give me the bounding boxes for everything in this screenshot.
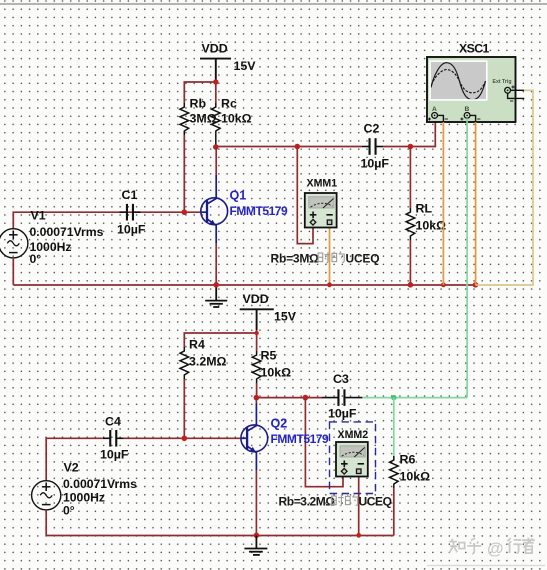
- capacitor C2: [362, 138, 383, 155]
- svg-text:FMMT5179: FMMT5179: [230, 204, 289, 218]
- svg-text:10kΩ: 10kΩ: [221, 112, 252, 126]
- wire XMM2 - to rail 2: [358, 476, 360, 536]
- svg-text:10kΩ: 10kΩ: [261, 366, 292, 380]
- svg-text:R4: R4: [189, 338, 205, 352]
- wire RL bottom to rail: [409, 240, 411, 285]
- svg-text:C4: C4: [105, 415, 121, 429]
- resistor Rc: [212, 103, 221, 135]
- resistor Rb: [180, 103, 189, 135]
- wire R4 bottom to base wire 2: [183, 379, 185, 438]
- power VDD (lower supply): [240, 309, 274, 330]
- resistor R5: [252, 351, 261, 383]
- wire green node down to R6 (green): [393, 398, 395, 456]
- wire collector junction to C2 row: [216, 146, 362, 148]
- ground (circuit 2): [244, 536, 267, 555]
- svg-text:FMMT5179: FMMT5179: [271, 432, 330, 446]
- svg-text:15V: 15V: [274, 310, 297, 324]
- svg-text:VDD: VDD: [202, 42, 228, 56]
- watermark baseline: [427, 565, 545, 567]
- svg-text:C3: C3: [333, 372, 349, 386]
- source V1: [0, 229, 28, 258]
- svg-text:B: B: [465, 106, 470, 113]
- wire Rc bottom to collector junction: [215, 135, 217, 147]
- transistor Q1: [201, 175, 228, 243]
- node collector junction 2: [254, 395, 260, 401]
- node Rb-base junction: [182, 209, 188, 215]
- svg-text:10µF: 10µF: [361, 156, 390, 170]
- wire V2 top to base wire 2: [46, 438, 103, 481]
- watermark 知乎 @行者: [450, 539, 536, 555]
- svg-text:XMM1: XMM1: [307, 178, 338, 190]
- top border line: [0, 3, 547, 5]
- wire VDD1 to Rb top: [184, 82, 216, 103]
- node rail emitter junction: [213, 282, 219, 288]
- node RL top junction: [408, 144, 414, 150]
- svg-text:V1: V1: [31, 209, 46, 223]
- source V2: [32, 481, 61, 510]
- svg-text:10kΩ: 10kΩ: [416, 219, 447, 233]
- svg-text:V2: V2: [64, 461, 79, 475]
- wire Rb bottom to base wire: [183, 135, 185, 212]
- svg-text:Rb=3.2MΩ: Rb=3.2MΩ: [279, 495, 336, 509]
- svg-text:Rb: Rb: [190, 97, 207, 111]
- node rail scope-A junction: [441, 282, 446, 287]
- svg-text:XMM2: XMM2: [338, 429, 369, 441]
- svg-text:UCEQ: UCEQ: [359, 495, 392, 509]
- svg-text:Q2: Q2: [271, 417, 288, 431]
- resistor R4: [180, 347, 189, 379]
- node rail XMM1 junction: [327, 282, 332, 287]
- wire bottom rail (circuit 1): [13, 284, 475, 286]
- node rail end junction: [473, 282, 479, 288]
- capacitor C3: [322, 389, 362, 406]
- wire Q1 emitter to rail: [215, 243, 217, 285]
- svg-text:C1: C1: [122, 188, 138, 202]
- node XMM2 branch junction: [303, 395, 309, 401]
- resistor RL: [406, 208, 415, 240]
- wire Q2 emitter to rail 2: [255, 470, 257, 536]
- svg-text:1000Hz: 1000Hz: [63, 491, 105, 505]
- wire scope B+ down (green): [466, 118, 468, 397]
- svg-text:@: @: [487, 539, 504, 558]
- wire V1 bottom to rail: [12, 258, 14, 285]
- svg-text:VDD: VDD: [243, 292, 269, 306]
- oscilloscope XSC1: [427, 57, 516, 122]
- svg-text:0°: 0°: [63, 504, 75, 518]
- terminal A (scope): [428, 113, 448, 123]
- svg-text:A: A: [432, 106, 437, 113]
- wire C4 to Q2 base: [124, 437, 241, 439]
- wire collector junction 2 down to Q2: [255, 398, 257, 403]
- wire XMM2 + input: [305, 398, 343, 487]
- svg-text:10µF: 10µF: [117, 222, 146, 236]
- capacitor C4: [103, 430, 124, 447]
- svg-text:10µF: 10µF: [100, 448, 129, 462]
- wire R5 bottom to collector junction 2: [256, 383, 258, 398]
- wire XMM1 + input: [297, 147, 313, 244]
- svg-text:C2: C2: [364, 122, 380, 136]
- transistor Q2: [241, 403, 268, 470]
- node VDD1 junction: [213, 79, 218, 84]
- capacitor C1: [120, 204, 141, 221]
- svg-text:10kΩ: 10kΩ: [400, 470, 431, 484]
- wire VDD2 to R5 top: [256, 333, 258, 351]
- ground (circuit 1): [205, 285, 227, 307]
- svg-text:3.2MΩ: 3.2MΩ: [189, 355, 227, 369]
- svg-text:0.00071Vrms: 0.00071Vrms: [63, 477, 137, 491]
- node rail2 emitter junction: [254, 533, 260, 539]
- terminal Ext Trig: [505, 86, 525, 102]
- terminal B (scope): [460, 113, 480, 123]
- svg-text:Q1: Q1: [230, 189, 247, 203]
- power VDD (top supply): [200, 59, 231, 81]
- svg-text:0.00071Vrms: 0.00071Vrms: [30, 225, 104, 239]
- svg-text:XSC1: XSC1: [459, 42, 490, 56]
- svg-text:15V: 15V: [234, 59, 257, 73]
- wire collector junction down to Q1: [215, 147, 217, 176]
- svg-text:Rb=3MΩ: Rb=3MΩ: [271, 252, 320, 266]
- multimeter XMM1: [305, 193, 337, 228]
- svg-text:Ext Trig: Ext Trig: [493, 79, 512, 85]
- node XMM1 branch junction: [295, 144, 301, 150]
- multimeter XMM2: [336, 442, 368, 477]
- wire C3 to green node (green): [362, 397, 467, 399]
- wire C2 to RL top and scope A: [383, 119, 435, 147]
- svg-text:Rc: Rc: [221, 97, 237, 111]
- wire Ext Trig (tan): [476, 90, 534, 285]
- wire bottom rail (circuit 2): [46, 535, 394, 537]
- svg-text:R5: R5: [261, 349, 277, 363]
- node R4-base junction: [182, 436, 188, 442]
- wire collector junction 2 to C3: [257, 397, 322, 399]
- svg-text:RL: RL: [416, 202, 433, 216]
- wire RL top lead: [409, 147, 411, 209]
- wire XMM1 - to rail (orange): [329, 228, 331, 286]
- svg-text:10µF: 10µF: [328, 407, 357, 421]
- node rail2 XMM2 junction: [356, 533, 361, 538]
- svg-text:0°: 0°: [30, 252, 42, 266]
- svg-text:UCEQ: UCEQ: [346, 252, 380, 266]
- node green junction: [391, 395, 396, 400]
- wire scope A- to rail (orange): [442, 122, 444, 285]
- wire VDD1 to Rc top: [215, 82, 217, 103]
- svg-text:R6: R6: [400, 453, 416, 467]
- wire R6 bottom to rail 2: [393, 488, 395, 536]
- selection box around XMM2 (dashed): [330, 422, 376, 494]
- wire V1 top to base wire: [13, 212, 201, 229]
- node VDD2 junction: [254, 331, 258, 335]
- node collector junction: [213, 144, 219, 150]
- wire V2 bottom to rail 2: [45, 510, 47, 536]
- wire scope B- to rail end (orange): [475, 122, 477, 285]
- resistor R6: [390, 456, 399, 488]
- node rail RL junction: [408, 282, 414, 288]
- wire VDD2 to R4 top: [184, 330, 256, 347]
